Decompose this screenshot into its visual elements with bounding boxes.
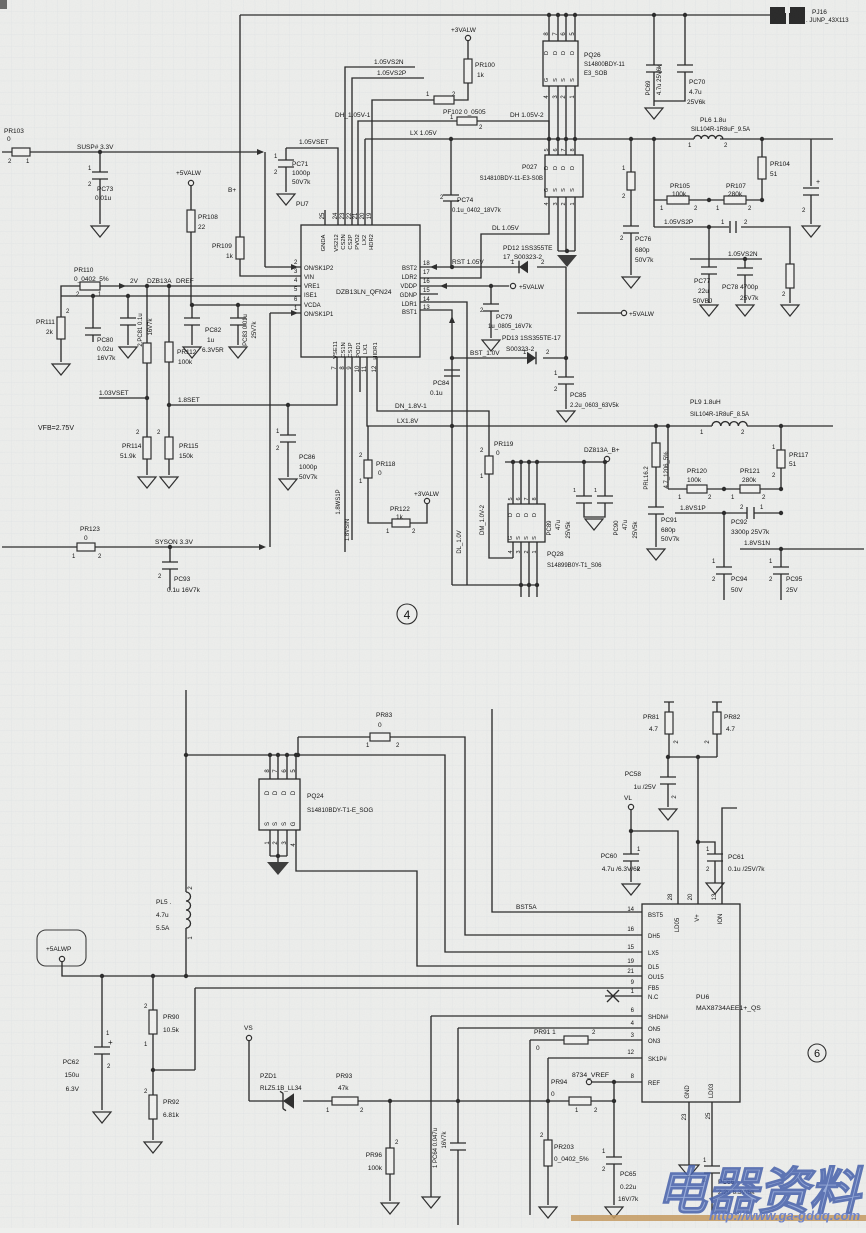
wire DH_1.05V-2 [477,121,549,155]
wire LX5 rail [186,755,642,952]
transistor PQ27 [545,155,583,197]
arrow ON/SKIP2 [291,264,298,270]
capacitor PC65 [606,1157,622,1164]
wire B+ top rail [240,15,770,237]
resistor PR109 [236,237,244,259]
wire NC stub [605,995,642,997]
wire PC61 top [698,842,715,854]
ground PC62 [93,1112,111,1123]
wire col169 to PR112 [168,286,170,342]
terminal +3VALW mid [424,498,429,503]
capacitor PC83 [230,318,246,325]
ground PC85 [557,411,575,422]
wire ON3 to PU6 [530,1040,642,1215]
wire PQ24 gate route DL5 [296,830,642,966]
terminal VL [628,804,633,809]
section marker 4 [397,604,417,624]
terminal 8734_VREF [586,1079,591,1084]
junction divider mid [707,198,711,202]
wire SYSON column [269,313,271,547]
capacitor PC73 [92,172,108,179]
resistor PR123 [77,543,95,551]
arrow ON/SKIP1 [291,310,298,316]
wire +5VALW to PR108 [190,186,192,210]
wire PQ27 source bar [558,250,575,252]
wire PC93 bottom [169,569,171,590]
wire PC91 bottom [655,514,657,547]
resistor PR91 [564,1036,588,1044]
ground PQ24 [267,862,289,875]
wire PC75 column [810,139,812,186]
resistor PR122 [392,519,410,527]
wire PC75 bottom [810,195,812,224]
junction VL node [666,755,670,759]
resistor PR96 [386,1148,394,1174]
diode PD12 [519,261,528,274]
wire PR112 to 1.8SET [168,362,170,437]
inductor PL9 [712,422,747,426]
junction V+ node [696,755,700,759]
wire PC77 bottom [708,274,710,303]
junction SYSON PC93 [168,545,172,549]
wire V+ column [697,757,699,904]
wire PC74 column [450,139,452,195]
junction VDDP PC79 [489,284,493,288]
wire LDR2 DL route [420,197,549,278]
wire LX1.8V rail [367,357,833,426]
wire PC94 top [723,513,725,567]
wire PR117 bottom [780,468,782,489]
wire VCDA rail [192,304,301,306]
wire 1.8VS1P row [675,512,781,514]
wire PC82 top [191,305,193,318]
junction LX rail x631 [629,137,633,141]
junction ISE PC81 [126,294,130,298]
junction LX5 rail [184,753,188,757]
wire DH row left [358,121,457,225]
wire GND pin 23 [688,1102,690,1165]
transistor PQ24 [259,779,300,830]
wire PR81 bottom [668,734,670,757]
wire pin20 to LX rail [364,139,366,225]
wire PC95 bottom [780,574,782,600]
ground PU7 [277,194,295,205]
junction PC90 top [603,460,607,464]
arrow DREF [119,283,126,289]
transistor PQ28 [508,504,545,542]
junction LX rail x451 [449,137,453,141]
wire 1.05VS2N [345,67,415,225]
resistor PR90 [149,1010,157,1034]
junction 1.8SET [167,403,171,407]
ground PR92 [144,1142,162,1153]
wire FB tap [153,1069,195,1071]
ground right resistor [781,305,799,316]
wire 1.8V divider feed [667,426,669,489]
junction 1.8VS1P right [779,511,783,515]
junction LX1.8V snub [666,424,670,428]
capacitor PC79 [483,304,499,311]
resistor PR105 [667,196,689,204]
section marker 6 [808,1044,826,1062]
ground PC58 [659,809,677,820]
wire ON5 column [457,1028,459,1143]
resistor PR100 [464,59,472,83]
wire DREF row [100,285,301,287]
wire PC94 bottom [723,574,725,600]
capacitor PC94 [716,567,732,574]
ground PC89 PC90 [585,519,603,530]
ground PC65 [605,1207,623,1218]
wire 1.8SET row [169,357,337,405]
capacitor PC92 [747,507,754,519]
junction rail PR90 [151,974,155,978]
junction VS PC64 [456,1099,460,1103]
wire PR110 left to ISE rail [61,286,80,296]
no-connect X mark [607,990,619,1002]
wire ON/SKIP1 from SYSON [270,312,301,314]
wire PC66 bottom [711,1173,713,1220]
resistor PR93 [332,1097,358,1105]
ground SHDN [422,1197,440,1208]
capacitor PC62 [94,1047,110,1054]
junction VCDA PR108 [190,303,194,307]
wire PC74 bottom [450,201,452,267]
wire 1.05VS2P row [654,227,790,264]
wire PC65 bottom [613,1164,615,1205]
wire divider row [654,199,762,201]
capacitor C 1.05VS2P [730,221,736,233]
diode PD13 [527,352,536,365]
junction B+ rail x558 [556,13,560,17]
wire SUSP row [2,151,263,153]
wire PR81 PR82 join [669,756,717,758]
wire PR114 bottom [146,459,148,475]
junction B+ rail x575 [573,13,577,17]
junction 1.05VS2N PC78 [743,257,747,261]
junction B+ rail PC69 [652,13,656,17]
junction LX1.8V out [779,424,783,428]
wire PC80 top [92,296,94,328]
wire PC64 bottom [457,1150,459,1225]
IC U1 DZB13LN_QFN24 [301,225,420,357]
junction LX rail x566 [564,137,568,141]
wire PC77 top [708,227,710,267]
wire SYSON row [2,546,263,548]
capacitor PC86 [280,435,296,442]
junction LX rail x549 [547,137,551,141]
wire col147 to R [146,286,148,343]
ground PC78 [736,305,754,316]
wire PR96 bottom [389,1174,391,1201]
wire PQ27 drain pins [549,139,575,155]
terminal +5VALW VDDP [510,283,515,288]
wire FB5 rail [195,988,642,1070]
wire PC80 stub [92,335,94,342]
resistor PR112 [165,342,173,362]
wire PC93 top [169,547,171,562]
wire PC70 bottom [654,72,685,101]
capacitor PC58 [660,777,676,784]
wire ION pin [722,808,737,904]
wire PR119 to PQ28 gate [489,474,513,558]
wire PR96 top [389,1101,391,1148]
junction 1.8VS1N PC95 [779,547,783,551]
resistor PR103 [12,148,30,156]
wire PQ28 gate pin [512,542,514,558]
wire PC73 bottom [99,179,101,224]
resistor PR111 [57,317,65,339]
junction PQ28 drain x521 [519,460,523,464]
wire LX source row [452,584,537,586]
wire PR203 top [547,1101,549,1140]
inductor PL5 [186,892,191,928]
ground PU6 GND [679,1165,699,1177]
ground PR96 [381,1203,399,1214]
wire PQ28 source pins [521,542,537,597]
ground PR114 [138,477,156,488]
wire SKIP# to PU6 [548,1058,642,1101]
junction REF [612,1080,616,1084]
inductor PL6 [694,135,723,139]
capacitor PC74 [443,195,459,201]
junction VL LD05 [629,829,633,833]
resistor PR82 [713,712,721,734]
wire +5ALWP rail OUT5 [62,962,642,976]
arrow SYSON [259,544,266,550]
wire VS column [248,1041,250,1101]
junction LX rail x558 [556,137,560,141]
junction B+ rail x549 [547,13,551,17]
wire PR118 top [367,426,369,460]
terminal +3VALW top [465,35,470,40]
wire PR90 top [152,976,154,1010]
wire GDNP stub [420,293,438,295]
wire PC83 top [237,305,239,318]
wire caps to ground [584,503,605,517]
ground PC81 [119,347,137,358]
resistor PR81 [665,712,673,734]
resistor PR94 [569,1097,591,1105]
wire PC62 bottom [101,1054,103,1110]
ground PC75 [802,226,820,237]
capacitor PC75 [803,188,819,195]
ground PR203 [539,1207,557,1218]
wire PC76 res top [630,139,632,172]
wire PQ24 source bar [270,855,287,857]
junction 1.8V divider right [779,487,783,491]
wire PR118 to PR122 [368,478,392,523]
ground PC69 PC70 [645,108,663,119]
resistor PR83 [370,733,390,741]
resistor PR119 [485,456,493,474]
junction PR94 right [612,1099,616,1103]
junction PR94 left [546,1099,550,1103]
junction 1.03VSET [145,396,149,400]
transistor PQ26 [543,41,578,86]
ground PC82 [183,347,201,358]
wire PQ26 source pins [549,86,575,139]
ground PC60 [622,884,640,895]
capacitor PC90 [597,496,613,503]
wire PC76 bottom [630,233,632,275]
wire PR115 bottom [168,459,170,475]
wire 1.05VSET [286,148,338,225]
junction ISE PC80 [91,294,95,298]
capacitor PC70 [677,65,693,72]
ground PC86 [279,479,297,490]
wire PC83 bottom [237,325,239,345]
wire SHDN# to PU6 [431,1015,642,1017]
wire BST5A [492,709,642,912]
wire pin10 stub [359,357,361,392]
wire VS row [249,1100,614,1102]
capacitor PC78 [737,268,753,275]
wire PC86 top [287,405,289,435]
resistor PF102 [457,117,477,125]
resistor PRL16.2 [652,443,660,467]
wire PQ24 drain pins [270,755,296,779]
junction RST node [450,265,454,269]
wire pin9 CS1P column [351,357,353,540]
wire PC70 top [684,15,686,65]
arrow SUSP [257,149,264,155]
wire sense feed [653,139,655,227]
resistor PR115 [165,437,173,459]
wire PC65 top [613,1101,615,1157]
wire VDDP to +5VALW [420,285,509,287]
terminal +5ALWP [59,956,64,961]
scan artifact corner [0,0,7,9]
connector +5ALWP [37,930,86,966]
capacitor PC81 [120,318,136,325]
IC PU6 MAX8734 [642,904,740,1102]
terminal DZ813A B+ [604,456,609,461]
junction BST_1.0V [564,356,568,360]
wire PC82 bottom [191,325,193,345]
wire SHDN column [430,1016,432,1197]
wire PC69 top [653,15,655,65]
capacitor PC60 [623,854,639,861]
wire PR82 bottom [716,734,718,757]
ground PR115 [160,477,178,488]
wire BST_1.0V column [565,267,567,377]
wire PQ28 drain pins [513,462,537,504]
wire DZ813A row [505,461,607,462]
resistor PR113 [143,343,151,363]
wire PC85 bottom [565,384,567,409]
junction PQ28 drain x537 [535,460,539,464]
wire PC89 column [583,462,585,496]
capacitor PC80 [85,328,101,335]
wire PQ24 source pins [270,830,287,856]
junction rail PL5 [184,974,188,978]
wire PR104 bottom [761,179,763,200]
wire 1.03VSET stub [99,397,147,399]
wire PC61 bottom [714,861,716,883]
junction DREF col147 [145,284,149,288]
ground PC61 [706,883,724,894]
capacitor PC61 [707,854,723,861]
wire PL5 to output [185,928,187,976]
junction B+ rail PC70 [683,13,687,17]
wire PC81 top [127,296,129,318]
junction LX rail x575 [573,137,577,141]
wire 1.8V divider row [668,488,781,490]
junction 1.8SET PC86 [286,403,290,407]
wire ON5 to PU6 [458,1027,642,1029]
capacitor PC89 [576,496,592,503]
wire PR90 bottom [152,1034,154,1095]
junction DREF col169 [167,284,171,288]
capacitor PC76 [623,226,639,233]
arrow BST1 up [449,316,455,323]
wire PC86 bottom [287,442,289,477]
capacitor PC64 [450,1143,466,1150]
wire PR111 bottom [60,339,62,362]
junction V+ PC61 [696,840,700,844]
junction PQ28 drain x513 [511,460,515,464]
wire BST1 column [420,310,452,585]
resistor PR104 [758,157,766,179]
capacitor PC84 [444,370,460,376]
resistor PR203 [544,1140,552,1166]
wire PC71 top [285,148,287,160]
wire REF column [613,1082,615,1101]
wire LDR1 DL_1.0V column [420,302,467,585]
wire PC78 bottom [744,275,746,303]
ground PC79 [482,340,500,351]
junction LX1.8V PRL16 [654,424,658,428]
resistor PR114 [143,437,151,459]
junction LX1.8V BST cap [450,424,454,428]
arrow BST2 [430,264,437,270]
wire PR108 to VCDA rail [190,232,192,305]
resistor PF101 DH1 row [434,96,454,104]
terminal +5VALW left [188,180,193,185]
junction LX rail x762 [760,137,764,141]
wire pin25 stub [324,210,326,225]
junction PQ28 drain x529 [527,460,531,464]
wire pin8 CS1N column [344,357,346,552]
junction divider right [760,198,764,202]
ground PC73 [91,226,109,237]
wire PC58 bottom [667,784,669,807]
wire SUSP to ON/SKIP2 [264,152,266,267]
junction FB divider [151,1068,155,1072]
wire +5VALW stub [577,312,621,314]
resistor PR117 [777,450,785,468]
wire BST2 [420,266,452,268]
junction PQ24 drain x278 [276,753,280,757]
wire LX rail left [365,138,694,140]
wire 1.8VS1N row [740,548,864,550]
wire PR92 bottom [152,1119,154,1140]
wire 1.05VS2N row [690,258,762,260]
junction 1.05VS2P PC77 [707,225,711,229]
wire ISE to PR111 [60,296,62,317]
junction BST1 column [450,356,454,360]
junction PQ28 source x521 [519,583,523,587]
wire resistor to ground [789,288,791,303]
wire PRL16 top [655,426,657,443]
junction LX rail x654 [652,137,656,141]
wire PRL16 to PC91 [655,467,657,507]
capacitor PC69 [646,65,662,72]
ground PC91 [647,549,665,560]
scan noise overlay [0,0,1,1]
wire PR83 to DH5 [390,737,642,935]
